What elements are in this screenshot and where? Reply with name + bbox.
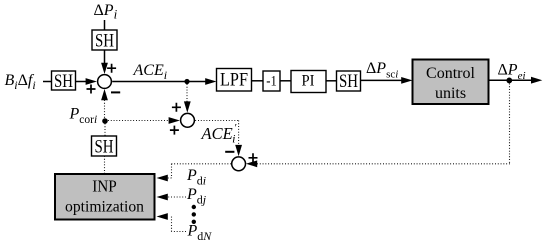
svg-text:ACEi: ACEi [133, 62, 168, 82]
svg-text:BiΔfi: BiΔfi [5, 72, 36, 92]
SH block right [337, 71, 361, 92]
summing junction sum1 [98, 75, 112, 89]
svg-text:Pcori: Pcori [69, 106, 98, 127]
minus sign left of sum3 top arrow [225, 151, 234, 153]
SH block mid [92, 136, 117, 158]
plus sign left of sum2 top arrow [172, 103, 181, 112]
wire -1 to PI [280, 80, 291, 82]
PI block [291, 71, 326, 93]
dotted wire Pcori node to sum2 [108, 117, 180, 124]
svg-text:ACE′i: ACE′i [201, 122, 238, 146]
svg-text:optimization: optimization [65, 199, 144, 216]
dotted wire sum1 bottom to Pcori node [104, 100, 106, 118]
SH block left [52, 71, 76, 92]
svg-text:SH: SH [95, 32, 114, 52]
svg-text:Control: Control [426, 65, 475, 82]
wire BiDfi to SH2 [43, 81, 52, 83]
wire SH2 to sum1 [76, 78, 97, 85]
svg-text:SH: SH [339, 72, 358, 92]
LPF block [217, 69, 252, 92]
svg-text:Pdi: Pdi [186, 167, 206, 188]
dotted wire sum2 to sum3 [195, 121, 242, 157]
wire LPF to -1 [252, 80, 264, 82]
dotted wire node to sum2 [184, 84, 191, 113]
wire PI to SH4 [326, 80, 337, 82]
plus sign left of sum1 [87, 85, 96, 94]
node Pcori [102, 118, 108, 124]
svg-text:Pdj: Pdj [186, 186, 207, 207]
svg-text:PdN: PdN [187, 223, 213, 244]
svg-text:ΔPi: ΔPi [94, 2, 118, 22]
wire sum1 to LPF [112, 78, 216, 85]
wire Pdj to INP input 2 [157, 194, 187, 201]
ellipsis dots [192, 205, 196, 224]
svg-text:INP: INP [92, 177, 117, 196]
dotted wire dPei node down [509, 84, 511, 164]
wire Control units to output [489, 77, 543, 84]
svg-text:SH: SH [54, 72, 73, 92]
wire dPi to SH1 [104, 20, 106, 30]
svg-text:units: units [435, 85, 466, 102]
arrow left into sum3 from right [246, 160, 510, 167]
node dPei [506, 78, 512, 84]
wire PdN to INP input 3 [157, 213, 187, 231]
SH block top [92, 30, 117, 52]
-1 block [263, 71, 280, 91]
svg-text:ΔPsci: ΔPsci [366, 60, 398, 81]
wire SH1 to sum1 [101, 50, 108, 74]
svg-text:PI: PI [302, 73, 315, 90]
summing junction sum2 [181, 113, 195, 127]
wire SH4 to Control units [361, 77, 413, 84]
dotted wire Pcori node to SH3 [104, 124, 106, 137]
INP optimization block [55, 174, 155, 220]
plus sign right of sum3 [249, 153, 258, 162]
summing junction sum3 [232, 157, 246, 171]
svg-text:-1: -1 [266, 74, 277, 90]
plus sign top of sum1 [107, 64, 116, 73]
svg-text:SH: SH [95, 138, 114, 158]
plus sign below Pcori wire [170, 126, 179, 135]
dotted wire sum3 to INP input 1 [157, 164, 232, 182]
node junction on ACE line [184, 79, 189, 84]
minus sign bottom of sum1 [111, 91, 120, 93]
svg-text:LPF: LPF [220, 71, 248, 91]
Control units block [413, 60, 489, 105]
dotted wire SH3 to INP box [104, 156, 106, 174]
arrow up into sum1 bottom [101, 89, 108, 100]
